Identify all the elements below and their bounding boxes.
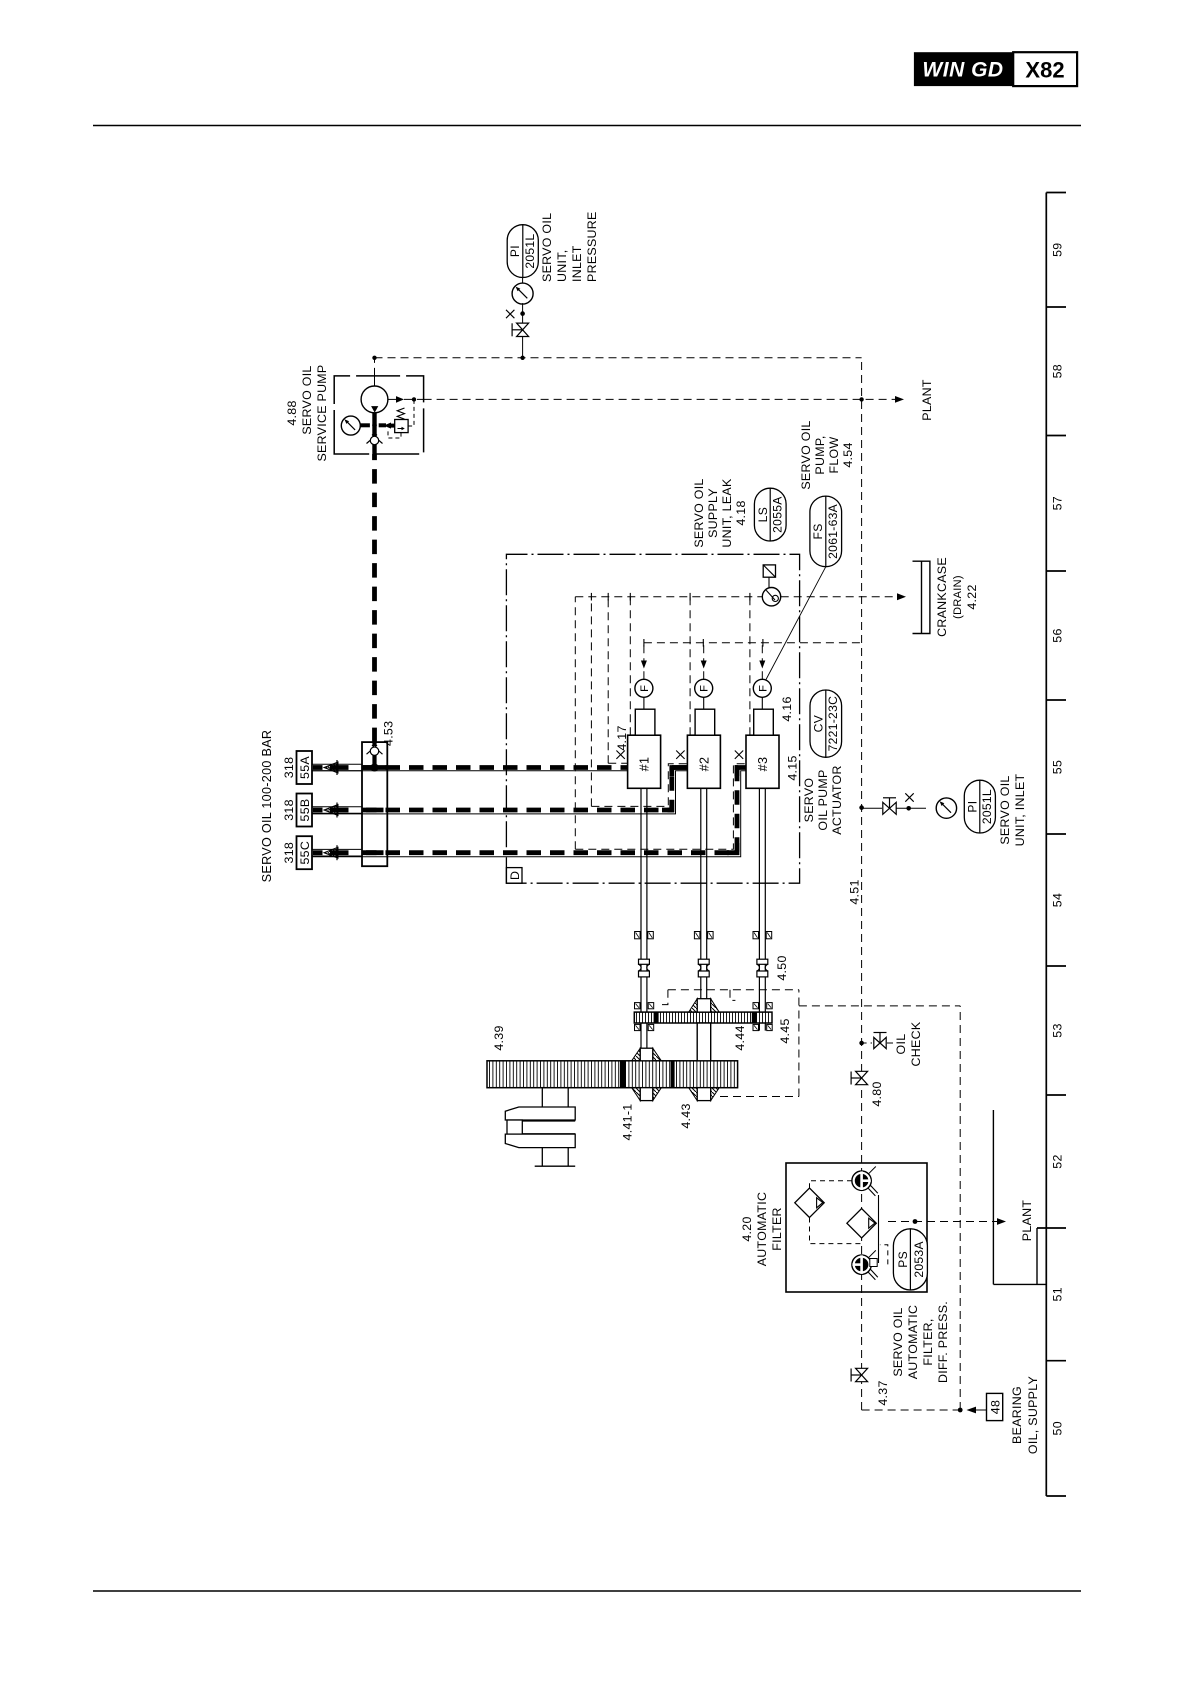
wire instrument branch servo oil unit inlet bbox=[859, 805, 882, 810]
component hub and bearings shaft 4.43 left bbox=[689, 1088, 720, 1101]
component drive shaft pump #1 bbox=[635, 788, 654, 1048]
node label x4.17 bbox=[615, 725, 629, 750]
node pipe connection 318/55B bbox=[282, 794, 362, 827]
component crankcase drain connection 4.22 bbox=[913, 557, 980, 637]
pipe 55A high pressure line bbox=[312, 768, 628, 771]
svg-text:WIN GD: WIN GD bbox=[922, 59, 1003, 82]
valve filter inlet ball valve bbox=[852, 1167, 878, 1196]
node label servo oil unit inlet pressure bbox=[540, 211, 599, 282]
pump service pump circle bbox=[361, 386, 388, 413]
node pipe connection 318/55A bbox=[282, 751, 362, 784]
pump servo oil pump #1 (4.15) bbox=[628, 735, 661, 788]
wire leak branch pump #1 bbox=[629, 597, 631, 736]
wire leak branch v1 to 55C jacket bbox=[574, 597, 576, 850]
component hub and bearings shaft 4.43 right bbox=[689, 999, 720, 1012]
svg-text:ACTUATOR: ACTUATOR bbox=[830, 765, 844, 834]
wire flow sensor branch pump #2 bbox=[701, 643, 707, 679]
node label 4.44 bbox=[733, 1025, 747, 1050]
svg-text:#3: #3 bbox=[756, 757, 770, 772]
svg-text:2061-63A: 2061-63A bbox=[826, 503, 840, 558]
component intermediate gear wheel 4.44 bbox=[634, 1012, 772, 1023]
svg-text:CHECK: CHECK bbox=[909, 1021, 923, 1066]
svg-text:4.51: 4.51 bbox=[848, 879, 862, 904]
wire FS sensor bus vertical bbox=[644, 642, 862, 644]
svg-text:#2: #2 bbox=[697, 757, 711, 772]
valve block rail 4.53 bbox=[362, 721, 396, 867]
svg-text:55C: 55C bbox=[298, 841, 312, 865]
pump servo oil pump #2 (4.15) bbox=[687, 735, 720, 788]
node pipe connection 318/55C bbox=[282, 836, 362, 869]
svg-text:318: 318 bbox=[282, 757, 296, 779]
svg-text:4.50: 4.50 bbox=[775, 955, 789, 980]
valve pressure relief valve service pump bbox=[379, 399, 414, 438]
instrument pressure gauge service pump bbox=[341, 416, 370, 435]
svg-text:SERVO OIL: SERVO OIL bbox=[799, 420, 813, 489]
svg-text:SERVO OIL: SERVO OIL bbox=[540, 213, 554, 282]
svg-text:F: F bbox=[757, 685, 769, 692]
svg-text:4.41-1: 4.41-1 bbox=[621, 1104, 635, 1141]
svg-text:OIL, SUPPLY: OIL, SUPPLY bbox=[1026, 1376, 1040, 1454]
wire service pump internal suction line bbox=[372, 413, 377, 437]
svg-text:X82: X82 bbox=[1025, 58, 1064, 83]
valve 4.80 on main line bbox=[851, 1071, 884, 1106]
component gear bearing blocks shaft #1 bbox=[635, 1003, 654, 1031]
node footer rule bbox=[93, 1590, 1081, 1592]
node test point x pump #3 bbox=[735, 751, 743, 759]
node header rule bbox=[93, 125, 1081, 127]
valve 4.37 on main line bbox=[851, 1368, 890, 1405]
pump servo oil service pump 4.88 module box bbox=[285, 364, 424, 461]
svg-text:58: 58 bbox=[1051, 364, 1065, 378]
component gear bearing blocks shaft #3 bbox=[753, 1003, 772, 1031]
svg-text:52: 52 bbox=[1051, 1154, 1065, 1168]
valve shutoff PI 2051L inlet bbox=[512, 323, 529, 336]
component actuator coupling pump #3 (4.16) bbox=[754, 697, 774, 735]
svg-text:CRANKCASE: CRANKCASE bbox=[935, 557, 949, 637]
svg-text:50: 50 bbox=[1051, 1421, 1065, 1435]
pipe main supply from service pump to rail bbox=[362, 454, 387, 853]
svg-text:FLOW: FLOW bbox=[827, 437, 841, 474]
svg-text:SERVO: SERVO bbox=[802, 778, 816, 823]
component automatic filter 4.20 box bbox=[740, 1163, 927, 1292]
svg-text:PLANT: PLANT bbox=[920, 379, 934, 421]
svg-text:UNIT, LEAK: UNIT, LEAK bbox=[720, 478, 734, 548]
svg-text:#1: #1 bbox=[638, 757, 652, 772]
pump servo oil pump #3 (4.15) bbox=[746, 735, 779, 788]
svg-text:4.54: 4.54 bbox=[841, 442, 855, 467]
wire main auxiliary dashed line bbox=[862, 358, 961, 1410]
svg-text:4.53: 4.53 bbox=[382, 721, 396, 746]
node label 4.43 bbox=[679, 1103, 693, 1128]
node label 4.41-1 bbox=[621, 1104, 635, 1141]
svg-text:59: 59 bbox=[1051, 243, 1065, 257]
component changeover linkage bar bbox=[870, 1195, 879, 1267]
valve internal check valve service pump bbox=[367, 435, 383, 455]
valve shutoff servo oil unit inlet bbox=[883, 798, 896, 815]
wire leak branch v2 to 55B jacket bbox=[590, 597, 592, 807]
wire oil check branch bbox=[859, 1041, 872, 1046]
svg-text:4.18: 4.18 bbox=[734, 500, 748, 525]
svg-text:4.43: 4.43 bbox=[679, 1103, 693, 1128]
wire leak jacket line 55A bbox=[608, 762, 627, 764]
instrument bubble PI 2051L servo oil unit bbox=[964, 780, 995, 833]
svg-text:4.45: 4.45 bbox=[778, 1018, 792, 1043]
wire PS connection bbox=[880, 1245, 888, 1265]
svg-text:SERVICE PUMP: SERVICE PUMP bbox=[315, 364, 329, 461]
svg-text:INLET: INLET bbox=[570, 245, 584, 282]
wire flow sensor branch pump #1 bbox=[641, 643, 647, 679]
instrument bubble LS 2055A bbox=[754, 488, 786, 541]
svg-text:D: D bbox=[508, 871, 522, 880]
svg-text:BEARING: BEARING bbox=[1010, 1386, 1024, 1444]
node servo oil inlet header label bbox=[260, 730, 274, 883]
wire drain line to crankcase bbox=[897, 593, 906, 600]
wire service pump outlet to PLANT bbox=[388, 379, 934, 421]
node label servo oil supply unit leak 4.18 bbox=[692, 478, 748, 548]
svg-text:318: 318 bbox=[282, 799, 296, 821]
node label servo oil pump flow 4.54 bbox=[799, 420, 855, 489]
node gear unit dashed boundary 4.45 bbox=[662, 990, 799, 1097]
component main gear wheel 4.39 bbox=[487, 1061, 738, 1088]
svg-text:4.44: 4.44 bbox=[733, 1025, 747, 1050]
svg-text:PI: PI bbox=[508, 245, 522, 257]
node label servo oil pump actuator bbox=[802, 765, 844, 834]
svg-text:4.16: 4.16 bbox=[780, 696, 794, 721]
svg-text:4.39: 4.39 bbox=[492, 1025, 506, 1050]
wire differential pressure to PLANT bbox=[888, 1200, 1034, 1242]
svg-text:318: 318 bbox=[282, 842, 296, 864]
node test point x pump #1 bbox=[616, 751, 624, 759]
svg-text:2055A: 2055A bbox=[771, 496, 785, 533]
pipe 55B high pressure line bbox=[312, 768, 687, 814]
svg-text:SERVO OIL: SERVO OIL bbox=[692, 478, 706, 547]
svg-text:56: 56 bbox=[1051, 628, 1065, 642]
wire leak jacket line 55C bbox=[575, 764, 746, 850]
svg-text:2053A: 2053A bbox=[912, 1241, 926, 1278]
node label 4.50 bbox=[775, 955, 789, 980]
node label 4.16 bbox=[780, 696, 794, 721]
svg-text:PUMP,: PUMP, bbox=[813, 435, 827, 474]
component filter element diamond main bbox=[847, 1209, 876, 1238]
valve filter outlet ball valve bbox=[852, 1250, 878, 1279]
svg-text:PS: PS bbox=[896, 1251, 910, 1268]
svg-text:OIL: OIL bbox=[894, 1034, 908, 1055]
instrument bubble PI 2051L bbox=[507, 225, 538, 278]
svg-text:2051L: 2051L bbox=[980, 789, 994, 824]
svg-text:53: 53 bbox=[1051, 1023, 1065, 1037]
node label 4.39 bbox=[492, 1025, 506, 1050]
instrument bubble PS 2053A bbox=[893, 1229, 927, 1290]
instrument pressure gauge servo oil unit inlet bbox=[936, 798, 956, 818]
svg-text:F: F bbox=[639, 685, 651, 692]
svg-text:55: 55 bbox=[1051, 760, 1065, 774]
svg-text:SERVO OIL: SERVO OIL bbox=[998, 775, 1012, 844]
instrument pressure gauge PI 2051L bbox=[512, 278, 533, 305]
svg-text:PRESSURE: PRESSURE bbox=[585, 211, 599, 282]
node label 4.51 bbox=[848, 879, 862, 904]
instrument level switch LS float bbox=[762, 565, 780, 606]
svg-text:4.80: 4.80 bbox=[870, 1081, 884, 1106]
node engine type X82 bbox=[1013, 52, 1077, 86]
instrument flow sensor F pump #2 bbox=[695, 679, 713, 697]
component hub and bearings shaft 4.41-1 right bbox=[632, 1048, 662, 1061]
valve oil check sampling bbox=[874, 1021, 924, 1066]
wire leak branch pump #3 bbox=[749, 597, 751, 736]
svg-text:SERVO OIL 100-200 BAR: SERVO OIL 100-200 BAR bbox=[260, 730, 274, 883]
node FS bus junction ticks bbox=[644, 639, 763, 647]
svg-text:LS: LS bbox=[756, 507, 770, 522]
svg-text:4.22: 4.22 bbox=[965, 584, 979, 609]
node connection 48 bearing oil supply bbox=[967, 1376, 1041, 1454]
wire instrument branch PI 2051L inlet bbox=[522, 337, 524, 358]
instrument flow sensor F pump #1 bbox=[635, 679, 653, 697]
component actuator coupling pump #2 (4.16) bbox=[695, 697, 715, 735]
svg-text:7221-23C: 7221-23C bbox=[826, 696, 840, 752]
svg-text:FILTER,: FILTER, bbox=[921, 1318, 935, 1365]
svg-text:57: 57 bbox=[1051, 496, 1065, 510]
wire leak branch v3 to 55A jacket bbox=[607, 597, 609, 764]
svg-text:AUTOMATIC: AUTOMATIC bbox=[906, 1305, 920, 1380]
svg-text:UNIT,: UNIT, bbox=[555, 250, 569, 282]
svg-text:DIFF. PRESS.: DIFF. PRESS. bbox=[936, 1301, 950, 1383]
svg-text:4.15: 4.15 bbox=[786, 755, 800, 780]
wire flow sensor branch pump #3 bbox=[759, 643, 765, 679]
wire bearing oil supply line from gear unit bbox=[799, 1006, 963, 1413]
component intermediate shaft 4.43 bbox=[697, 1023, 711, 1061]
svg-text:4.17: 4.17 bbox=[615, 725, 629, 750]
svg-text:PI: PI bbox=[965, 801, 979, 813]
svg-text:SUPPLY: SUPPLY bbox=[706, 488, 720, 538]
component filter element diamond bypass bbox=[795, 1188, 824, 1217]
wire filter bypass line bbox=[810, 1181, 862, 1244]
wire leak branch pump #2 bbox=[689, 597, 691, 736]
svg-text:AUTOMATIC: AUTOMATIC bbox=[755, 1192, 769, 1267]
component drive shaft pump #3 bbox=[753, 788, 772, 1030]
svg-text:UNIT, INLET: UNIT, INLET bbox=[1013, 773, 1027, 846]
svg-text:54: 54 bbox=[1051, 893, 1065, 907]
node leak bus junction ticks bbox=[591, 593, 750, 601]
svg-text:2051L: 2051L bbox=[523, 234, 537, 269]
wire leak oil bus vertical bbox=[575, 596, 899, 598]
component hub and bearings shaft 4.41-1 left bbox=[632, 1088, 662, 1101]
logo WinGD header bbox=[914, 52, 1013, 86]
svg-text:4.88: 4.88 bbox=[285, 400, 299, 425]
svg-text:(DRAIN): (DRAIN) bbox=[952, 575, 964, 619]
svg-text:FILTER: FILTER bbox=[770, 1207, 784, 1251]
svg-text:55A: 55A bbox=[298, 756, 312, 779]
component crankshaft with crank web bbox=[505, 1088, 575, 1167]
svg-text:SERVO OIL: SERVO OIL bbox=[891, 1307, 905, 1376]
svg-text:4.20: 4.20 bbox=[740, 1216, 754, 1241]
instrument bubble CV 7221-23C bbox=[810, 690, 842, 757]
node test point x servo oil unit inlet bbox=[896, 793, 926, 810]
svg-text:OIL PUMP: OIL PUMP bbox=[816, 769, 830, 830]
node label servo oil unit inlet bbox=[998, 773, 1027, 846]
node cylinder-scale ruler bbox=[1037, 193, 1066, 1497]
node label 4.45 bbox=[778, 1018, 792, 1043]
svg-text:PLANT: PLANT bbox=[1020, 1200, 1034, 1242]
svg-text:CV: CV bbox=[811, 714, 825, 732]
wire service pump case line to main dashed line bbox=[372, 356, 861, 386]
svg-text:FS: FS bbox=[811, 523, 825, 539]
svg-text:55B: 55B bbox=[298, 799, 312, 822]
pipe 55C high pressure line bbox=[312, 768, 746, 857]
node engine outline notch near PLANT bbox=[993, 1110, 1046, 1284]
component drive shaft pump #2 bbox=[694, 788, 713, 1012]
node test point x pump #2 bbox=[676, 751, 684, 759]
node test point x PI 2051L bbox=[506, 303, 525, 323]
svg-text:51: 51 bbox=[1051, 1287, 1065, 1301]
node label 4.15 bbox=[786, 755, 800, 780]
svg-text:48: 48 bbox=[988, 1400, 1002, 1414]
svg-text:F: F bbox=[699, 685, 711, 692]
component actuator coupling pump #1 (4.16) bbox=[635, 697, 655, 735]
node label servo oil automatic filter diff press bbox=[891, 1301, 950, 1383]
instrument bubble FS 2061-63A bbox=[766, 496, 842, 680]
wire leak jacket line 55B bbox=[591, 764, 687, 807]
node supply unit boundary D (dash-dot box) bbox=[506, 554, 799, 883]
svg-text:4.37: 4.37 bbox=[876, 1380, 890, 1405]
svg-text:SERVO OIL: SERVO OIL bbox=[300, 365, 314, 434]
instrument flow sensor F pump #3 bbox=[753, 679, 771, 697]
